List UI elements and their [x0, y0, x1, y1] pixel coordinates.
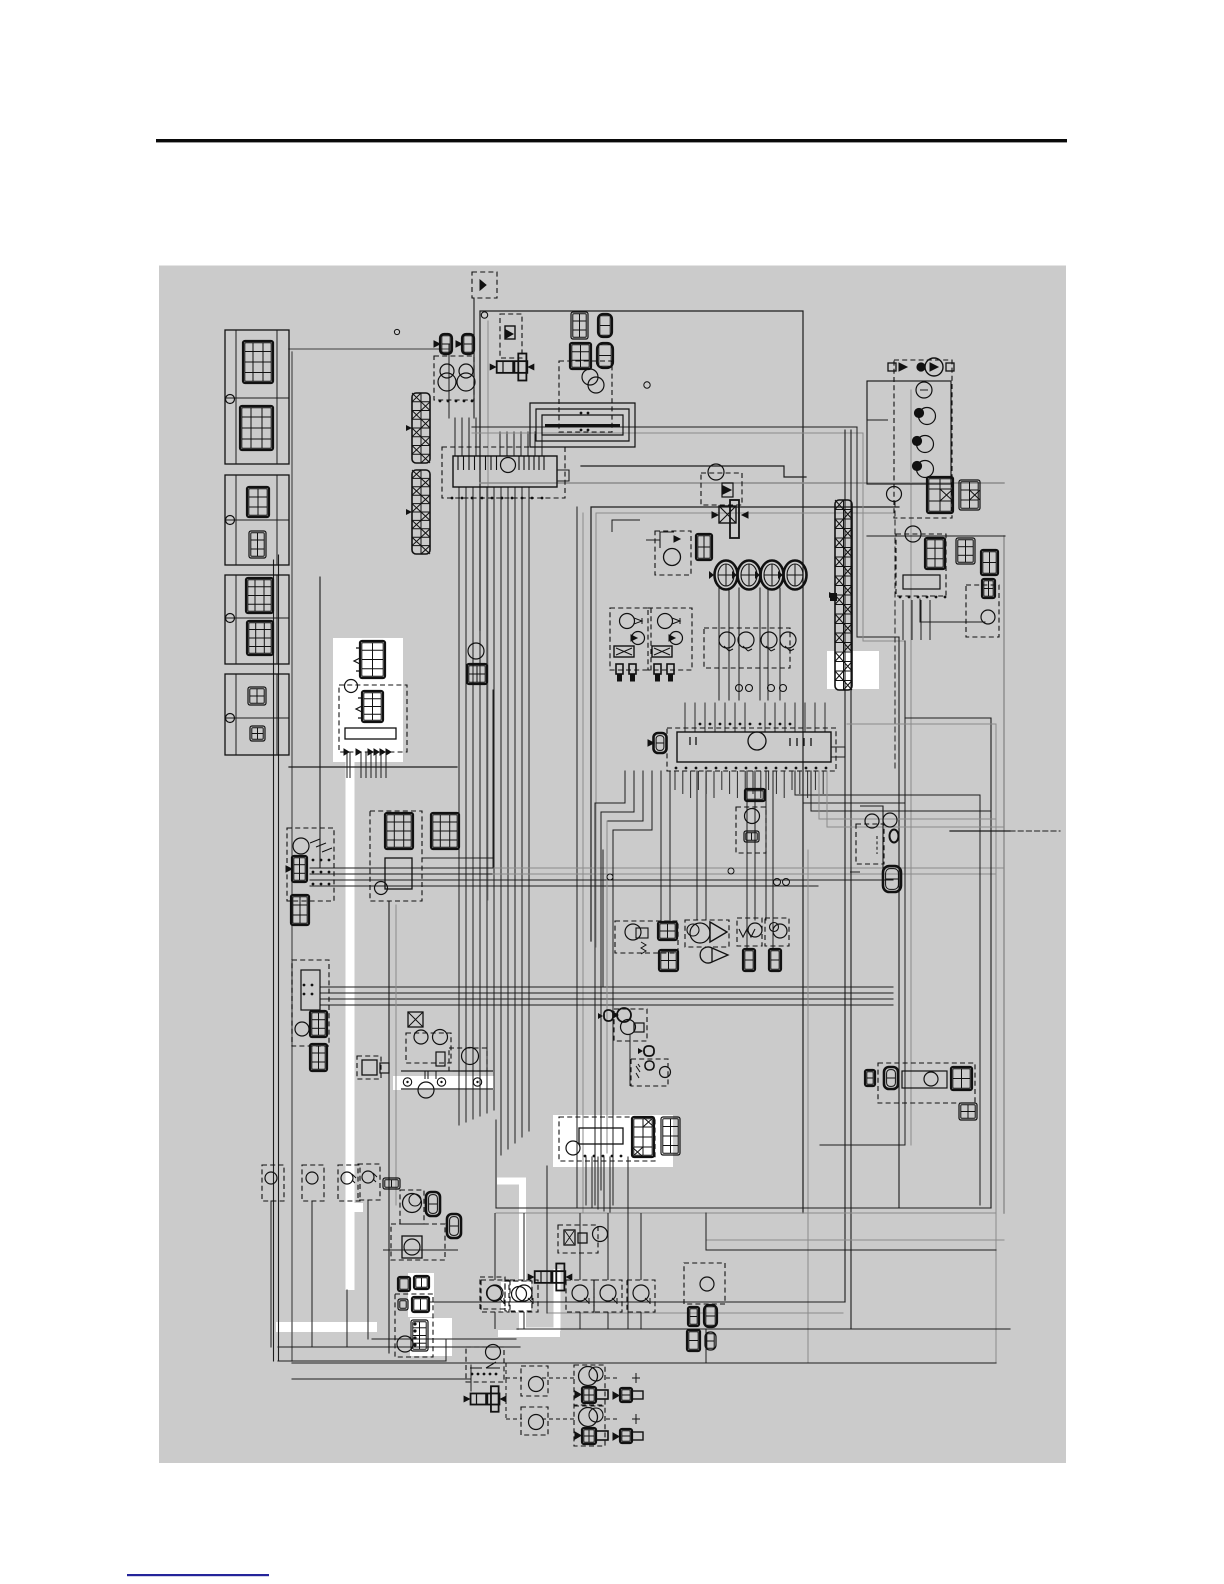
- wire right stub: [950, 830, 1010, 832]
- fuse terminal sq left: [888, 363, 896, 371]
- wire right trunk 1: [844, 430, 846, 1302]
- connector flasher: [696, 534, 712, 560]
- wire bus C: [472, 426, 857, 428]
- main switch circle: [566, 1141, 580, 1155]
- diode block dashed box: [287, 828, 334, 901]
- joint connector circle: [501, 458, 516, 473]
- sensor circle L2: [362, 1171, 374, 1183]
- wire ecu output 5: [660, 771, 662, 922]
- rear switch circle: [700, 1277, 714, 1291]
- small box sensor b: [380, 1063, 389, 1073]
- wire center-left rail A: [576, 507, 578, 1208]
- wire gray inner vertical: [487, 321, 489, 900]
- junction circle c: [774, 879, 781, 886]
- connector 6P diode block: [292, 856, 307, 882]
- relay circle: [375, 882, 388, 895]
- connector oval tail: [884, 1067, 898, 1089]
- wire ecu stub top: [774, 703, 776, 732]
- wire bottom trunk D: [278, 1360, 446, 1362]
- wire joint v3: [705, 1329, 707, 1363]
- wire far right trunk 2: [904, 641, 906, 1145]
- wire relay riser: [492, 690, 494, 868]
- wire left inner vertical: [319, 577, 321, 868]
- wire main switch lead: [597, 1157, 599, 1209]
- meter block 4 housing: [225, 674, 289, 755]
- connector horn 2: [462, 334, 474, 354]
- license lamp 2: [620, 1429, 632, 1443]
- wire ecu stub top: [824, 703, 826, 732]
- starter relay dashed box: [339, 685, 407, 752]
- connector small tail: [865, 1070, 875, 1086]
- wire ecu output 12: [772, 771, 774, 949]
- hazard relay circle: [745, 809, 760, 824]
- ignition coil 1: [610, 608, 651, 670]
- wire bundle lower main: [320, 992, 893, 994]
- servo dashed box: [391, 1224, 445, 1260]
- diode D1: [505, 326, 515, 339]
- switch circle box left: [302, 1165, 324, 1201]
- connector sensor right: [982, 579, 995, 598]
- throttle sensor zigzag: [739, 929, 755, 937]
- wire bundle to relay block: [310, 867, 493, 869]
- sidestand circle: [486, 1345, 501, 1360]
- clutch circle B: [512, 1287, 527, 1302]
- wire bundle lower main: [320, 986, 893, 988]
- wire engine box left: [602, 850, 604, 987]
- meter block 3 housing: [225, 575, 289, 664]
- relay switch slashes: [636, 1064, 640, 1078]
- sensor circle L1: [341, 1172, 353, 1184]
- flasher contacts: [646, 532, 674, 548]
- arrow: [434, 341, 440, 347]
- connector oval speed: [426, 1192, 440, 1216]
- enclosure main harness box: [480, 311, 803, 1213]
- white patch left sensors: [350, 1203, 363, 1212]
- meter block 2 housing: [225, 475, 289, 565]
- wire gray inner frame: [596, 513, 893, 947]
- wire trunk vertical from joint connector b: [514, 487, 516, 1143]
- ECU pins bottom: [675, 767, 828, 770]
- tail unit bar: [902, 1071, 947, 1088]
- pins row rectifier: [899, 596, 947, 599]
- fuel pump circle: [468, 643, 484, 659]
- junction circle a: [607, 874, 613, 880]
- ECU main bar: [677, 732, 831, 762]
- starter relay pin arrows: [344, 749, 391, 755]
- wire trunk vertical from joint connector: [465, 487, 467, 1122]
- rectifier dashed box: [896, 534, 946, 596]
- connector oval speed2: [447, 1214, 461, 1238]
- white harness tape path: [497, 1181, 560, 1331]
- coil circle 3: [917, 461, 934, 478]
- connector rectifier A: [925, 538, 945, 569]
- white patch behind clutch switch: [501, 1282, 531, 1312]
- connector oval O2: [883, 866, 901, 892]
- starter relay circle: [621, 1020, 636, 1035]
- wire ecu output stair 4: [613, 771, 652, 1205]
- white under bottom-left wires: [276, 1322, 377, 1332]
- coolant temp sensor body: [636, 928, 648, 938]
- injector 1: [709, 561, 738, 590]
- switch contact circle: [566, 1280, 594, 1312]
- wire nested frame 1: [905, 718, 991, 1208]
- terminal dots row: [439, 400, 474, 403]
- connector 6P below fuse panel: [310, 1044, 327, 1071]
- relay assembly circle bottom: [660, 1067, 671, 1078]
- wire joint v2: [470, 1365, 472, 1391]
- connector hazard relay: [745, 789, 765, 801]
- fuse panel dashed box: [292, 960, 329, 1046]
- wire ecu output 10: [754, 771, 756, 920]
- horn H1 ring a: [440, 364, 454, 378]
- connector sensor 4P upper: [658, 922, 677, 940]
- throttle sensor circle: [748, 923, 762, 937]
- coil dot 2: [913, 437, 922, 446]
- joint connector pins: [451, 497, 544, 500]
- relay assembly dashed box 2: [631, 1059, 668, 1086]
- wire ecu stub top: [744, 703, 746, 732]
- wire bottom trunk F: [292, 1362, 996, 1364]
- white patch near crosshatch strip bottom: [827, 651, 879, 689]
- terminal circle block1: [226, 395, 235, 404]
- wire main switch lead: [603, 1157, 605, 1211]
- wire starter relay lead: [385, 752, 387, 778]
- wire mid rail A: [600, 812, 602, 1190]
- wire ecu stub top: [724, 703, 726, 732]
- hazard relay dashed box: [736, 807, 766, 853]
- exup circle: [397, 1336, 413, 1352]
- switch contact circle: [481, 1280, 509, 1312]
- wire injector feed: [759, 588, 761, 700]
- connector 6P fuse panel: [310, 1011, 327, 1037]
- terminal circle block4: [226, 714, 235, 723]
- exup unit grid: [411, 1320, 428, 1351]
- servo body: [402, 1236, 422, 1258]
- wire left outer vertical B: [278, 555, 280, 1361]
- connector tail B: [959, 1103, 977, 1120]
- connector pair bottom middle upper: [688, 1307, 699, 1326]
- wire ecu output 6: [669, 771, 671, 922]
- connector 12P relay B: [431, 813, 459, 849]
- sidestand contacts: [470, 1362, 500, 1368]
- air pressure sensor dashed box: [685, 920, 729, 947]
- air pressure sensor circle a: [690, 923, 710, 943]
- bracket marks top grid: [354, 648, 360, 671]
- wire bundle to relay block: [310, 873, 493, 875]
- pilot lamp circle a: [582, 369, 598, 385]
- connector main switch A: [632, 1117, 654, 1157]
- connector 6P below diode: [291, 895, 309, 925]
- connector sensor dark A: [743, 949, 755, 971]
- connector starter relay mid: [362, 691, 383, 722]
- wire injector feed: [718, 588, 720, 700]
- wire lower bus B: [496, 1212, 996, 1214]
- rectifier body: [903, 575, 940, 589]
- joint connector bar: [453, 456, 557, 487]
- wire trunk vertical from joint connector b: [507, 487, 509, 1149]
- wire mid-left vertical: [388, 901, 390, 1353]
- wire relay assembly drop: [629, 1034, 631, 1086]
- injector 2: [732, 561, 761, 590]
- wire ecu output 9: [746, 771, 748, 949]
- clutch circle A: [487, 1286, 502, 1301]
- switch circle left: [306, 1172, 318, 1184]
- wire starter relay lead: [380, 752, 382, 778]
- circle near switch relay: [593, 1227, 608, 1242]
- wire bundle ext right 2: [493, 873, 996, 875]
- wire bus step right: [581, 466, 806, 477]
- fuse dot: [917, 363, 925, 371]
- wire bundle ext right: [493, 867, 1004, 869]
- rectifier circle: [905, 526, 921, 542]
- wire bottom trunk G: [292, 1378, 471, 1380]
- connector starter relay top: [360, 641, 385, 678]
- horns dashed box: [434, 356, 474, 400]
- small terminal circle: [736, 685, 743, 692]
- wire nested frame 2: [847, 724, 996, 1363]
- wire ecu output 7: [696, 771, 698, 920]
- pickup dashed box: [704, 628, 790, 668]
- coolant temp sensor dashed box: [615, 921, 678, 953]
- white behind exup unit: [410, 1318, 452, 1356]
- connector rectifier B: [956, 538, 975, 564]
- diode D2: [722, 483, 733, 497]
- small circle mid: [644, 382, 650, 388]
- relay near switch dashed: [558, 1225, 598, 1253]
- connector oval meter B: [597, 343, 613, 368]
- meter block 1 housing: [225, 330, 289, 464]
- wire right inner rail: [979, 795, 981, 1205]
- wire meter to horn feed: [289, 348, 449, 350]
- wire starter relay lead: [360, 752, 362, 778]
- wire stub into joint connector: [506, 432, 508, 456]
- terminal circle block3: [226, 614, 235, 623]
- speed sensor dashed: [400, 1190, 424, 1224]
- wire horn feed down: [448, 345, 450, 418]
- main fuse circle: [925, 358, 943, 376]
- wire rectifier lead: [920, 600, 922, 640]
- wire joint v1: [445, 1339, 447, 1361]
- wire bus A: [581, 465, 784, 467]
- joint connector dashed box: [442, 447, 565, 498]
- joint connector strip C: [829, 500, 852, 690]
- joint connector internal pins: [458, 456, 544, 470]
- ECU pins top: [699, 723, 792, 726]
- wire feed into joint connector: [468, 418, 470, 456]
- fuse box enclosure: [867, 381, 951, 484]
- small circle left: [394, 329, 399, 334]
- fuse terminal sq right: [946, 363, 954, 371]
- wire far right trunk 1: [898, 637, 900, 1208]
- wire trunk vertical from joint connector b: [528, 487, 530, 1131]
- ignition circle 1: [916, 382, 932, 398]
- wire ecu to right rail 3: [811, 771, 991, 811]
- tail unit dashed box: [878, 1063, 975, 1103]
- starter motor M: [464, 1386, 507, 1412]
- sensor circle right: [981, 610, 995, 624]
- terminal circle block2: [226, 516, 235, 525]
- injector 4: [778, 561, 807, 590]
- rear switch dashed box: [684, 1263, 725, 1304]
- starter relay circle: [345, 680, 358, 693]
- coil dot 1: [915, 409, 924, 418]
- fuse panel body: [301, 970, 320, 1010]
- wire feed into joint connector: [454, 418, 456, 456]
- wire bundle ext right 3: [493, 879, 893, 881]
- flasher relay dashed box: [655, 531, 691, 575]
- wire rectifier corner v: [919, 599, 921, 622]
- connector 12P block3 lower: [247, 621, 273, 655]
- wire feed into joint connector: [475, 418, 477, 456]
- junction circle b: [728, 868, 734, 874]
- wire ecu output 11: [765, 771, 767, 920]
- white highlight row behind sensor bar: [393, 1076, 494, 1090]
- wire right low bus B: [706, 1249, 996, 1251]
- tail lamp 1: [574, 1365, 605, 1405]
- wire drop circle L2: [367, 1200, 369, 1339]
- wire trunk vertical from joint connector: [472, 487, 474, 1119]
- coil dot 3: [913, 462, 922, 471]
- wire starter relay lead: [349, 752, 351, 778]
- diode unit dashed box: [701, 473, 742, 505]
- wire trunk vertical from joint connector: [479, 487, 481, 1116]
- wire lower bus A: [496, 1207, 991, 1209]
- switch contact circle: [510, 1280, 538, 1312]
- fuse symbol: [480, 280, 486, 290]
- pickup circle: [719, 632, 735, 648]
- wire injector feed: [767, 588, 769, 700]
- ECU dashed box: [667, 728, 836, 771]
- switch contact circle: [594, 1280, 622, 1312]
- wire rectifier corner h: [920, 621, 985, 623]
- wire ecu output stair 2: [601, 771, 634, 812]
- wire bundle lower main: [320, 998, 893, 1000]
- wire center-left rail B: [582, 513, 584, 1213]
- main switch body: [579, 1128, 623, 1144]
- main switch dashed box: [559, 1117, 655, 1161]
- crank sensor dashed box: [765, 918, 789, 946]
- small terminal circle: [746, 685, 753, 692]
- throttle sensor dashed box: [737, 918, 762, 946]
- wire ecu stub top: [684, 703, 686, 732]
- connector tail A: [951, 1067, 972, 1090]
- wire right trunk 3: [857, 427, 899, 637]
- connector 12P meter upper: [243, 341, 273, 383]
- white highlighted wire band: [346, 760, 355, 1290]
- speed sensor inner: [409, 1194, 421, 1206]
- wire bottom trunk A: [430, 1301, 845, 1303]
- wire stub into joint connector: [527, 432, 529, 456]
- connector 6P block2 lower: [249, 531, 266, 558]
- top rule: [156, 139, 1067, 142]
- wire ecu stub top: [814, 703, 816, 732]
- wire lower bus riser: [495, 1120, 497, 1208]
- wire dashed drop right: [894, 502, 896, 770]
- small box sensor a: [362, 1060, 377, 1075]
- wire right trunk 4: [863, 433, 905, 641]
- connector 6P meter B: [570, 343, 591, 369]
- wire bundle ext right 4: [493, 885, 818, 887]
- wire lamp feed 1: [506, 1363, 554, 1379]
- diode oval: [638, 1046, 654, 1056]
- ECU tab right: [831, 747, 845, 757]
- wire ecu stub top: [734, 703, 736, 732]
- switch slashes: [310, 839, 332, 852]
- wire main harness left vertical: [291, 352, 293, 1361]
- connector oval left of ECU: [654, 733, 667, 753]
- pickup circle: [761, 632, 777, 648]
- air pressure sensor circle b: [687, 924, 699, 936]
- white highlight behind main switch: [553, 1115, 673, 1167]
- wire gray right rail: [1003, 536, 1005, 1213]
- wire ecu output stair 3: [607, 771, 643, 821]
- wire ecu to right rail 4: [819, 771, 996, 819]
- connector 12P relay A: [385, 813, 413, 849]
- wire bottom trunk A2: [547, 1312, 843, 1314]
- wire stub into joint connector: [520, 432, 522, 456]
- ECU bottom pin comb: [675, 771, 823, 798]
- wire rectifier lead: [911, 600, 913, 640]
- wire stub into joint connector: [513, 432, 515, 456]
- wire ecu stub top: [784, 703, 786, 732]
- wire injector feed: [738, 588, 740, 700]
- switch circle box far left: [262, 1165, 284, 1201]
- meter connector dashed box: [559, 361, 612, 432]
- connector 6P block2 upper: [247, 487, 269, 517]
- meter unit nested frame: [530, 403, 635, 447]
- connector 6P meter A: [571, 312, 588, 339]
- circle left of connector: [887, 487, 902, 502]
- wire right trunk 2: [850, 430, 852, 1329]
- connector oval meter A: [598, 314, 612, 337]
- wire meter feed to starter relay: [289, 766, 457, 768]
- wire far right trunk 3: [910, 390, 912, 1145]
- connector fuel pump: [467, 664, 487, 684]
- wire trunk vertical from joint connector b: [500, 487, 502, 1155]
- wire ecu stub top: [714, 703, 716, 732]
- wire drop under white band: [346, 1290, 348, 1347]
- wire stub into joint connector: [499, 432, 501, 456]
- wire starter relay lead: [370, 752, 372, 778]
- pickup circle: [780, 632, 796, 648]
- enclosure engine section box: [591, 507, 899, 941]
- wire left outer vertical A: [273, 560, 275, 1361]
- fuse panel circle: [295, 1022, 309, 1036]
- wire bundle to relay block: [310, 885, 493, 887]
- crank sensor circle b: [773, 924, 787, 938]
- wire switch drop 2: [627, 1157, 629, 1329]
- arrow: [456, 341, 462, 347]
- wire main switch lead: [591, 1157, 593, 1207]
- starter relay SR: [490, 354, 535, 381]
- fuse main dashed box: [472, 272, 497, 298]
- white under lamp feed row: [498, 1330, 560, 1337]
- wire gray bus B: [480, 482, 1004, 484]
- wire stub into joint connector: [541, 432, 543, 456]
- pilot lamp circle b: [588, 377, 604, 393]
- regulator dashed box: [500, 314, 522, 358]
- ECU circle: [748, 732, 766, 750]
- connector small top sensors: [383, 1178, 400, 1189]
- wire trunk vertical from joint connector: [458, 487, 460, 1125]
- connector main switch B: [661, 1117, 680, 1155]
- diode block circle: [293, 838, 309, 854]
- wire lamp feed 2: [506, 1379, 554, 1419]
- wire ecu output 8: [705, 771, 707, 920]
- wire ecu stub top: [804, 703, 806, 732]
- wire gray bus D: [472, 432, 863, 434]
- wire bundle to relay block: [310, 879, 493, 881]
